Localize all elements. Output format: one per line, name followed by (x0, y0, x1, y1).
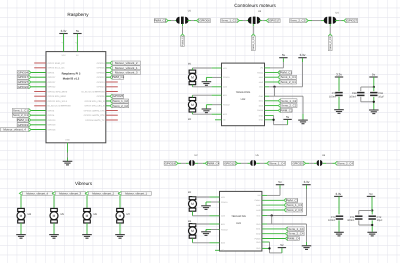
svg-text:Moteur_vibrant_4: Moteur_vibrant_4 (3, 128, 26, 132)
global label Sens_1_C1 (vertical) (251, 34, 255, 51)
svg-text:Sens_1_C1: Sens_1_C1 (281, 75, 296, 79)
wire GPIO22 to Raspberry (31, 86, 46, 88)
wire Sens_2_C1 to Raspberry (31, 114, 46, 116)
wire Moteur_vibrant_4 to Raspberry (31, 129, 46, 131)
global label GPIO25 (110, 94, 124, 98)
wire Moteur_vibrant_4 to M4 (20, 195, 22, 208)
svg-text:PWM_C1: PWM_C1 (280, 71, 293, 75)
wire 3.3v to C73 (338, 196, 340, 214)
connector J1 Raspberry Pi 3 Model B (46, 52, 106, 143)
capacitor C72 10uF (369, 216, 376, 219)
svg-text:GPIO17: GPIO17 (48, 76, 57, 79)
wire Raspberry to Moteur_vibrant_2 (106, 62, 110, 64)
wire Moteur_vibrant_3 to M5 (53, 195, 55, 208)
svg-text:5v: 5v (369, 192, 373, 196)
wire M5 to ground (53, 223, 55, 234)
svg-text:PWM_C4: PWM_C4 (207, 161, 220, 165)
svg-text:3.3v: 3.3v (335, 192, 341, 196)
svg-text:GPIO8 SPI0_CE0_N: GPIO8 SPI0_CE0_N (85, 100, 105, 103)
svg-text:M: M (191, 202, 194, 206)
svg-text:3.3v: 3.3v (336, 72, 342, 76)
wire U23 to Sens_1_C3 (262, 204, 284, 206)
svg-text:GPIO12: GPIO12 (97, 76, 106, 79)
wire junction down (274, 87, 276, 96)
svg-text:100nF: 100nF (349, 96, 357, 99)
svg-text:TB6612FNG: TB6612FNG (236, 91, 251, 94)
svg-text:GPIO2 SDA1_I2C: GPIO2 SDA1_I2C (48, 62, 66, 65)
svg-text:GPIO3 SCL1_I2C: GPIO3 SCL1_I2C (48, 67, 65, 70)
svg-text:GPIO22: GPIO22 (18, 85, 29, 89)
svg-text:GPIO11 SPI0_SCLK: GPIO11 SPI0_SCLK (48, 100, 68, 103)
global label GPIO17 (266, 19, 280, 23)
wire Raspberry to PWM_C2 (106, 76, 110, 78)
wire U23 to Sens_1_C4 (262, 228, 286, 230)
ground (M6) (82, 235, 92, 239)
svg-text:PWMB: PWMB (257, 109, 264, 112)
svg-text:GPIO6: GPIO6 (48, 114, 55, 117)
wire U4 pin 2 down (329, 24, 331, 27)
global label Sens_1_C4 (row) (267, 161, 286, 165)
wire C68 to junction (360, 97, 362, 102)
capacitor C73 100nF (336, 216, 343, 219)
ground (U23 left lower) (201, 232, 211, 236)
svg-text:GPIO10 SPI0_MOSI: GPIO10 SPI0_MOSI (48, 90, 68, 93)
svg-text:BO2: BO2 (221, 242, 225, 245)
svg-text:3.3v: 3.3v (300, 53, 306, 57)
svg-text:ID_SC I2C ID EEPROM: ID_SC I2C ID EEPROM (82, 90, 105, 93)
wire U23 PGND1 (206, 201, 211, 203)
wire U23 GND3 row (262, 247, 270, 249)
ground (U23 left upper) (201, 206, 211, 210)
svg-text:PWM_C2: PWM_C2 (154, 19, 167, 23)
power flag 5v (C71 C72) (367, 192, 375, 197)
ground (C71 C72) (367, 232, 377, 236)
wire GPIO19 to Raspberry (31, 124, 46, 126)
wire M2 top to U22 (191, 95, 193, 97)
ground (Raspberry) (63, 161, 73, 165)
svg-text:GPIO15: GPIO15 (97, 67, 106, 70)
wire 3.3v to C70 (338, 77, 340, 91)
svg-text:ID_SD I2C ID EEPROM: ID_SD I2C ID EEPROM (48, 105, 71, 108)
svg-text:M6: M6 (94, 213, 98, 216)
wire Moteur_vibrant_1 to M7 (119, 195, 121, 208)
global label GPIO27 (344, 19, 358, 23)
motor M2 (188, 97, 196, 112)
svg-text:GND: GND (256, 223, 261, 226)
svg-text:3.3v: 3.3v (304, 180, 310, 184)
svg-text:Raspberry Pi 3: Raspberry Pi 3 (62, 73, 81, 76)
wire M6 to ground (86, 223, 88, 234)
svg-text:Vibreurs: Vibreurs (75, 181, 93, 186)
wire Raspberry to Moteur_vibrant_1 (106, 67, 110, 69)
global label GPIO19 (row) (164, 161, 178, 165)
ground (M7) (115, 235, 125, 239)
svg-text:GPIO13: GPIO13 (48, 119, 57, 122)
wire GPIO12 to U5 (237, 162, 241, 164)
svg-text:Sens_1_C2: Sens_1_C2 (221, 19, 236, 23)
svg-text:Sens_1_C4: Sens_1_C4 (270, 161, 285, 165)
wire U22 PGND2 (206, 104, 212, 106)
svg-text:AO2: AO2 (223, 86, 227, 89)
global label Sens_1_C4 (U23 lower) (285, 227, 304, 231)
global label GPIO12 (224, 161, 238, 165)
wire U22 to Sens_2_C2 (265, 105, 279, 107)
global label Sens_2_C2 (motor U4 left) (290, 19, 309, 23)
svg-text:Moteur_vibrant_3: Moteur_vibrant_3 (59, 191, 81, 195)
device U6 (317, 160, 323, 166)
global label Sens_2_C1 (vertical) (328, 34, 332, 51)
junction (U23 GND rows) (268, 247, 270, 249)
pin ID_SC/I2C ID EEPROM (unconnected) (106, 91, 118, 93)
wire C72 down (371, 220, 373, 231)
power flag 5v (Raspberry) (73, 29, 81, 34)
wire M3 top to U23 (192, 223, 194, 225)
svg-text:GPIO19: GPIO19 (48, 124, 57, 127)
svg-text:Moteur_vibrant_1: Moteur_vibrant_1 (125, 191, 147, 195)
wire Raspberry to GPIO25 (106, 95, 110, 97)
svg-text:PGND2: PGND2 (221, 228, 228, 231)
svg-text:GPIO06: GPIO06 (199, 19, 210, 23)
power flag 5v inverted (U22 bottom) (283, 115, 291, 120)
pin GPIO16/UART5_CTS (unconnected) (106, 110, 118, 112)
svg-text:PWMA: PWMA (257, 71, 264, 74)
wire U23 GND2 row (262, 241, 270, 243)
global label PWM_C2 (110, 75, 125, 79)
wire stub U23 bottom-left (215, 249, 220, 251)
motor M3 (U23) (189, 224, 197, 239)
svg-text:Sens_1_C1: Sens_1_C1 (13, 109, 28, 113)
svg-text:GND: GND (259, 114, 264, 117)
wire Moteur_vibrant_2 to M6 (86, 195, 88, 208)
svg-text:BO1: BO1 (221, 223, 225, 226)
wire branch to C71 (359, 210, 372, 212)
svg-text:GPIO22: GPIO22 (48, 86, 57, 89)
global label Sens_2_C2 (U22 lower) (278, 104, 297, 108)
wire U22 to Sens_2_C1 (265, 81, 278, 83)
svg-text:M: M (191, 76, 194, 80)
svg-text:Moteur_vibrant_4: Moteur_vibrant_4 (26, 191, 48, 195)
global label Sens_2_C2 (110, 104, 129, 108)
pin ID_SD/I2C ID EEPROM (unconnected) (34, 105, 46, 107)
wire Raspberry to Sens_2_C2 (106, 105, 110, 107)
motor M1 (188, 70, 196, 85)
wire U23 VM to 5v (262, 194, 267, 196)
global label GPIO25 (row) (292, 161, 306, 165)
svg-text:M: M (191, 229, 194, 233)
svg-text:VM: VM (258, 194, 261, 197)
wire PWM_C1 to Raspberry (31, 119, 46, 121)
pin GPIO13/UART5_RTS (unconnected) (106, 114, 118, 116)
global label GPIO04 (17, 71, 31, 75)
svg-text:GND: GND (259, 119, 264, 122)
wire to 5v flag below (U23) (270, 252, 282, 254)
svg-text:GPIO17: GPIO17 (18, 75, 29, 79)
global label Sens_1_C1 (12, 109, 31, 113)
svg-text:AIN1: AIN1 (256, 204, 260, 207)
wire U22 to PWM_C2 (265, 109, 279, 111)
svg-text:M: M (119, 214, 122, 218)
global label Moteur_vibrant_4 (19, 191, 52, 195)
global label PWM_C1 (17, 118, 31, 122)
pin GPIO2/SDA1_I2C (unconnected) (34, 62, 46, 64)
global label GPIO17 (17, 75, 31, 79)
wire stub U22 bottom-left (215, 119, 222, 121)
wire to 5v flag below (274, 124, 288, 126)
ground (C68 C69) (369, 110, 379, 114)
wire U22 GND2 row (265, 115, 274, 117)
power flag 3.3v (Raspberry) (59, 29, 67, 34)
svg-text:10µF: 10µF (377, 219, 383, 222)
ground (C70) (334, 110, 344, 114)
wire M3 bottom to U23 (192, 238, 194, 243)
svg-text:GPIO4: GPIO4 (48, 71, 55, 74)
global label PWM_C2 (motor U1 left) (154, 19, 168, 23)
wire U3 pin 2 down (252, 24, 254, 27)
svg-text:VCC: VCC (256, 214, 261, 217)
IC U22 TB6612FNG (222, 63, 265, 126)
global label Sens_2_C1 (12, 113, 31, 117)
power flag 5v (C68 C69) (369, 72, 377, 77)
svg-text:GPIO26 UART5_TX: GPIO26 UART5_TX (85, 119, 105, 122)
wire GPIO17 to Raspberry (31, 76, 46, 78)
svg-text:BIN1: BIN1 (259, 100, 263, 103)
global label Sens_2_C3 (284, 208, 303, 212)
wire 5v down (bottom) (371, 196, 373, 210)
global label Sens_1_C2 (110, 99, 129, 103)
svg-text:Sens_1_C3: Sens_1_C3 (287, 203, 302, 207)
svg-text:GND: GND (65, 139, 70, 142)
global label PWM_C1 (U22) (278, 71, 293, 75)
global label PWM_C3 (284, 198, 299, 202)
svg-text:GPIO27: GPIO27 (18, 80, 29, 84)
wire U23 GND row (262, 223, 267, 225)
svg-text:Raspberry: Raspberry (67, 12, 89, 17)
motor M5 (50, 208, 65, 223)
global label Moteur_vibrant_3 (110, 71, 140, 75)
svg-text:AO1: AO1 (221, 196, 225, 199)
wire 5v main vertical (373, 87, 375, 91)
svg-text:M: M (191, 103, 194, 107)
svg-text:AIN2: AIN2 (259, 81, 263, 84)
motor U4 (324, 17, 337, 24)
svg-text:M: M (20, 214, 23, 218)
wire M7 to ground (119, 223, 121, 234)
svg-text:PWM_C1: PWM_C1 (181, 35, 184, 46)
power flag 3.3v (U23) (302, 180, 310, 185)
wire GPIO04 to Raspberry (31, 72, 46, 74)
svg-text:Sens_1_C2: Sens_1_C2 (281, 99, 296, 103)
wire Sens_1_C2 to U3 (239, 20, 242, 22)
svg-text:GPIO13 UART5_RTS: GPIO13 UART5_RTS (84, 114, 105, 117)
global label Sens_1_C2 (motor U3 left) (221, 19, 240, 23)
svg-text:VCC: VCC (259, 86, 264, 89)
svg-text:5v: 5v (76, 29, 80, 33)
svg-text:Sens_2_C1: Sens_2_C1 (329, 36, 332, 50)
wire 3.3v to U23 VCC (306, 185, 308, 189)
capacitor C68 100nF (357, 93, 364, 96)
svg-text:VM: VM (260, 67, 263, 70)
device U2 (189, 160, 195, 166)
junction (U23 VCC row) (271, 214, 273, 216)
svg-text:GPIO25: GPIO25 (113, 94, 124, 98)
device U5 (250, 160, 256, 166)
svg-text:BIN2: BIN2 (256, 233, 260, 236)
svg-text:Sens_1_C4: Sens_1_C4 (288, 227, 303, 231)
wire M1 top to U22 (191, 68, 193, 70)
motor M6 (83, 208, 98, 223)
svg-text:Sens_1_C2: Sens_1_C2 (113, 99, 128, 103)
svg-text:10µF: 10µF (378, 96, 384, 99)
wire Sens_1_C1 to Raspberry (31, 110, 46, 112)
wire 3.3v to pin 1 (63, 34, 65, 52)
wire M4 to ground (20, 223, 22, 234)
svg-text:GND: GND (256, 247, 261, 250)
wire U23 PGND2 (206, 229, 211, 231)
wire Raspberry GND (67, 143, 69, 153)
svg-text:PGND2: PGND2 (223, 104, 230, 107)
svg-text:Sens_2_C1: Sens_2_C1 (13, 113, 28, 117)
svg-text:GPIO14: GPIO14 (97, 62, 106, 65)
wire U23 to PWM_C4 (262, 238, 286, 240)
global label PWM_C2 (U22 lower) (278, 108, 293, 112)
svg-text:PWM_C4: PWM_C4 (287, 237, 300, 241)
wire C72 vertical (371, 211, 373, 215)
wire U4 to GPIO27 (335, 20, 339, 22)
global label GPIO22 (17, 85, 31, 89)
svg-text:Sens_2_C2: Sens_2_C2 (281, 104, 296, 108)
power flag 3.3v (U22) (298, 53, 306, 58)
svg-text:GPIO5: GPIO5 (48, 109, 55, 112)
svg-text:Moteur_vibrant_3: Moteur_vibrant_3 (115, 71, 138, 75)
wire U22 to Sens_1_C2 (265, 100, 279, 102)
power flag 5v (U23) (276, 180, 284, 185)
global label Sens_2_C4 (U23 lower) (285, 232, 304, 236)
svg-text:GPIO26: GPIO26 (48, 128, 57, 131)
capacitor C69 10uF (370, 93, 377, 96)
svg-text:BO1: BO1 (223, 94, 227, 97)
svg-text:AIN1: AIN1 (259, 76, 263, 79)
wire U1 pin 2 down (182, 24, 184, 27)
global label Moteur_vibrant_1 (110, 66, 140, 70)
pin GPIO11/SPI0_SCLK (unconnected) (34, 100, 46, 102)
svg-text:GPIO12: GPIO12 (224, 161, 235, 165)
svg-text:GPIO25: GPIO25 (97, 95, 106, 98)
svg-text:GPIO7 SPI0_CE1_N: GPIO7 SPI0_CE1_N (85, 105, 105, 108)
wire 5v down (373, 77, 375, 87)
svg-text:GPIO23: GPIO23 (97, 81, 106, 84)
svg-text:Moteur_vibrant_2: Moteur_vibrant_2 (115, 61, 138, 65)
global label Moteur_vibrant_1 (118, 191, 151, 195)
svg-text:GPIO16 UART5_CTS: GPIO16 UART5_CTS (84, 109, 105, 112)
svg-text:GPIO27: GPIO27 (347, 19, 358, 23)
wire U22 PGND1 (206, 76, 212, 78)
IC U23 TB6612FNG (220, 191, 262, 251)
global label Sens_1_C2 (U22 lower) (278, 99, 297, 103)
motor U1 (176, 17, 189, 24)
wire U23 to PWM_C3 (262, 199, 284, 201)
wire U23 to Sens_2_C3 (262, 209, 284, 211)
svg-text:Sens_2_C2: Sens_2_C2 (290, 19, 305, 23)
svg-text:5v: 5v (282, 53, 286, 57)
svg-text:GPIO19: GPIO19 (18, 123, 29, 127)
svg-text:PWM_C2: PWM_C2 (280, 108, 293, 112)
svg-text:TB6612FNG: TB6612FNG (231, 215, 246, 218)
svg-text:PGND1: PGND1 (223, 76, 230, 79)
wire U23 to Sens_2_C4 (262, 233, 286, 235)
wire U5 to Sens_1_C4 (256, 162, 259, 164)
svg-text:Sens_2_C2: Sens_2_C2 (113, 104, 128, 108)
ground (C73) (334, 232, 344, 236)
svg-text:AIN2: AIN2 (256, 209, 260, 212)
pin GPIO24 (unconnected) (106, 86, 118, 88)
power flag 5v (U22) (279, 53, 287, 58)
svg-text:PWMB: PWMB (255, 237, 262, 240)
global label Sens_2_C4 (row) (335, 161, 354, 165)
svg-text:GPIO9 SPI0_MISO: GPIO9 SPI0_MISO (48, 95, 67, 98)
junction (caps bottom) (373, 101, 375, 103)
svg-text:5v: 5v (372, 72, 376, 76)
svg-text:5v: 5v (280, 243, 284, 247)
wire GPIO19 to U2 (178, 162, 181, 164)
wire 5v to pin 2 (76, 34, 78, 52)
svg-text:GPIO18: GPIO18 (97, 71, 106, 74)
wire branch to C68 (361, 86, 374, 88)
svg-text:M7: M7 (127, 213, 131, 216)
svg-text:GPIO17: GPIO17 (269, 19, 280, 23)
svg-text:GPIO24: GPIO24 (97, 86, 106, 89)
junction (5v caps top) (373, 86, 375, 88)
wire 3.3v to U22 VCC (302, 58, 304, 62)
wire C73 to ground (338, 220, 340, 231)
global label PWM_C4 (U23 lower) (285, 237, 300, 241)
wire C69 down (373, 97, 375, 110)
wire U22 to Sens_1_C1 (265, 76, 278, 78)
svg-text:GND: GND (259, 95, 264, 98)
svg-text:M4: M4 (28, 213, 32, 216)
svg-text:Controleurs moteurs: Controleurs moteurs (234, 3, 276, 8)
svg-text:M: M (86, 214, 89, 218)
svg-text:GPIO04: GPIO04 (18, 71, 29, 75)
wire U22 to PWM_C1 (265, 72, 278, 74)
motor M7 (116, 208, 131, 223)
global label Moteur_vibrant_2 (85, 191, 118, 195)
wire U3 to GPIO17 (259, 20, 262, 22)
svg-text:Sens_1_C1: Sens_1_C1 (252, 36, 255, 50)
global label Moteur_vibrant_2 (110, 61, 140, 65)
capacitor C70 100nF (335, 93, 342, 96)
ground (M4) (16, 235, 26, 239)
svg-text:Sens_2_C3: Sens_2_C3 (287, 208, 302, 212)
junction (bottom caps bottom) (371, 224, 373, 226)
wire U22 GND row (265, 95, 270, 97)
svg-text:3.3v: 3.3v (61, 29, 67, 33)
global label Moteur_vibrant_3 (52, 191, 85, 195)
global label GPIO19 (17, 123, 31, 127)
ground (U22 left upper) (202, 82, 212, 86)
wire U22 GND3 row (265, 119, 274, 121)
svg-text:U22: U22 (241, 98, 246, 101)
global label PWM_C1 (vertical U1) (181, 34, 185, 46)
junction (bottom caps top) (371, 209, 373, 211)
svg-text:5v: 5v (278, 180, 282, 184)
pin GPIO10/SPI0_MOSI (unconnected) (34, 91, 46, 93)
pin GPIO26/UART5_TX (unconnected) (106, 119, 118, 121)
wire C70 to ground (338, 97, 340, 109)
global label Sens_1_C1 (U22) (278, 75, 297, 79)
junction (U22 VCC row) (273, 86, 275, 88)
junction (U22 GND rows) (272, 119, 274, 121)
global label Moteur_vibrant_4 (1, 128, 31, 132)
